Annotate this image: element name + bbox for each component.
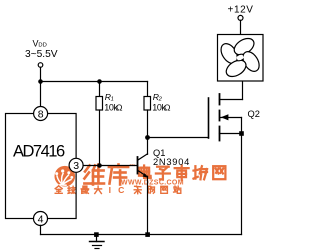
VDD supply terminal (38, 63, 43, 68)
pin 4 (34, 212, 48, 226)
svg-text:8: 8 (38, 108, 44, 120)
watermark text 维库 (84, 165, 128, 185)
transistor Q1 2N3904 (138, 138, 148, 235)
node R2/collector junction (145, 135, 150, 140)
wire pin4 to ground rail (40, 225, 42, 234)
wire Q2 source to ground rail (241, 134, 243, 235)
svg-text:Q2: Q2 (248, 109, 260, 119)
svg-text:DD: DD (38, 42, 46, 48)
node ground junction (94, 232, 99, 237)
resistor R1 (99, 82, 101, 97)
watermark text 电子市场网 (139, 166, 225, 181)
wire +12V to fan (240, 20, 242, 34)
wire VDD terminal to rail (40, 67, 42, 106)
node VDD rail junction (38, 79, 43, 84)
pin 8 (34, 107, 48, 121)
+12V terminal (238, 15, 243, 20)
wire to Q2 gate (148, 137, 209, 139)
svg-text:AD7416: AD7416 (13, 143, 65, 161)
label R2 10k ohm (152, 92, 171, 113)
svg-text:2N3904: 2N3904 (153, 157, 190, 167)
node R1 top junction (97, 79, 102, 84)
svg-text:™: ™ (129, 163, 135, 170)
node emitter/rail junction (145, 232, 150, 237)
label R1 10k ohm (104, 92, 123, 113)
dzsc watermark logo (55, 166, 76, 187)
label Q1 2N3904 (153, 148, 190, 167)
svg-text:1: 1 (111, 96, 114, 102)
ground symbol (90, 235, 105, 249)
fan blades (218, 35, 263, 80)
svg-text:3: 3 (73, 160, 79, 172)
svg-text:IC: IC (109, 185, 132, 195)
ground rail (41, 234, 242, 236)
transistor Q2 MOSFET (209, 81, 243, 141)
wire pin3 to Q1 base (83, 165, 138, 167)
fan M1 box (218, 35, 264, 82)
label VDD 3~5.5V (25, 38, 58, 60)
resistor R2 (144, 97, 151, 111)
pin 3 (69, 158, 83, 172)
svg-text:3~5.5V: 3~5.5V (25, 49, 58, 60)
watermark slogan 全球最大IC采购网站 (55, 186, 181, 194)
node R1 bottom junction (97, 163, 102, 168)
svg-text:Ω: Ω (164, 103, 171, 113)
node Q2 source junction (239, 131, 244, 136)
svg-text:Ω: Ω (116, 103, 123, 113)
svg-text:4: 4 (38, 213, 44, 225)
wire VDD rail (41, 81, 148, 83)
svg-text:+12V: +12V (228, 5, 254, 16)
IC U1 AD7416 box (6, 114, 77, 219)
